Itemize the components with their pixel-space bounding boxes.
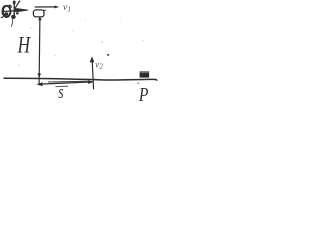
svg-text:H: H bbox=[17, 33, 31, 58]
dimension arrow s bbox=[36, 80, 94, 86]
ground line bbox=[4, 78, 158, 80]
package (dropped box) bbox=[33, 10, 45, 17]
dimension arrow H bbox=[37, 16, 41, 85]
faint scan specks bbox=[18, 18, 144, 65]
arrow v1 bbox=[35, 6, 60, 9]
svg-text:s: s bbox=[58, 83, 63, 101]
airplane bbox=[1, 1, 28, 27]
svg-text:v1: v1 bbox=[63, 3, 71, 13]
speck below ground left of P bbox=[137, 83, 139, 84]
svg-text:P: P bbox=[138, 83, 148, 101]
arrow v2 bbox=[90, 56, 95, 89]
speck near v2 bbox=[107, 54, 109, 56]
block P on ground bbox=[140, 71, 150, 77]
svg-text:v2: v2 bbox=[95, 59, 103, 70]
